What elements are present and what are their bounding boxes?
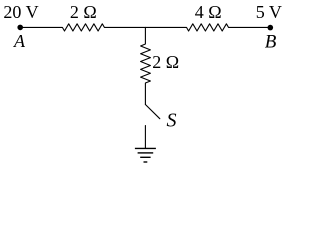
svg-text:2 Ω: 2 Ω bbox=[70, 2, 97, 22]
svg-text:B: B bbox=[265, 31, 277, 52]
svg-text:5 V: 5 V bbox=[256, 2, 282, 22]
svg-text:4 Ω: 4 Ω bbox=[195, 2, 222, 22]
svg-text:A: A bbox=[13, 31, 26, 51]
svg-text:2 Ω: 2 Ω bbox=[152, 52, 179, 72]
svg-text:S: S bbox=[167, 110, 177, 132]
svg-text:20 V: 20 V bbox=[3, 2, 38, 22]
